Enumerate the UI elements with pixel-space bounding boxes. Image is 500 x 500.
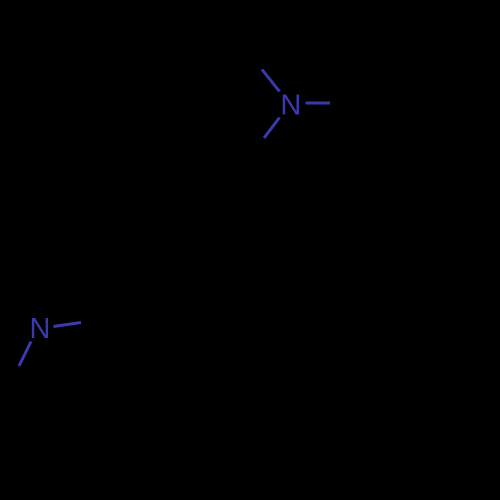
bond N2-C lower-left half [19,342,31,367]
svg-text:N: N [30,313,51,345]
svg-text:N: N [280,90,301,122]
bond N1-C lower-left half [264,118,280,139]
bond N1-CH3 upper-left half [262,70,280,92]
bond N2-C right half [54,323,82,327]
bond N1-C right half [306,102,331,105]
